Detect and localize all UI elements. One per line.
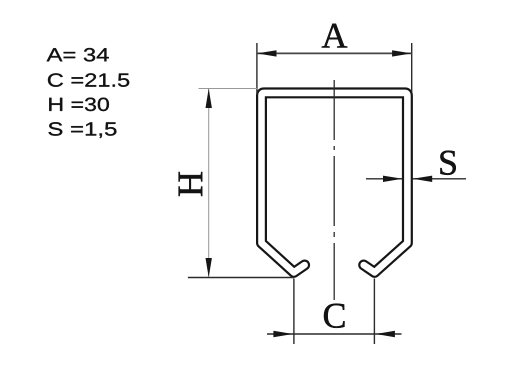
dimension A: right arrowhead: [392, 50, 412, 56]
dimension C: label letter C: [324, 304, 345, 328]
center line (vertical dash-dot axis): [333, 80, 335, 300]
dimension H: bottom extension line: [188, 277, 294, 279]
dimension H: up arrowhead: [206, 89, 212, 109]
dimension C: right extension line: [373, 279, 375, 345]
legend text line 4: S =1,5: [48, 122, 116, 138]
legend text line 1: A= 34: [47, 48, 109, 61]
dimension C: left extension line: [293, 279, 295, 345]
C-profile outline (tube: black outer stroke): [262, 93, 408, 273]
dimension S: left arrowhead (points right at wall): [383, 176, 403, 182]
dimension C: dimension line: [267, 333, 402, 335]
dimension S: right leader line: [413, 178, 467, 180]
dimension A: left arrowhead: [257, 50, 277, 56]
dimension C: right arrowhead (points left): [375, 331, 395, 337]
dimension H: dimension line: [208, 89, 210, 277]
dimension A: dimension line: [257, 52, 412, 54]
dimension A: left extension line: [256, 43, 258, 95]
dimension H: label letter H (rotated): [179, 172, 203, 196]
dimension S: label letter S: [440, 151, 455, 175]
dimension A: label letter A: [322, 24, 347, 48]
dimension S: right arrowhead (points left at wall): [413, 176, 433, 182]
legend text line 2: C =21.5: [48, 73, 129, 86]
legend text line 3: H =30: [49, 98, 109, 111]
C-profile outline (tube: white inner stroke): [262, 93, 408, 273]
dimension H: down arrowhead: [206, 258, 212, 278]
dimension H: top extension line: [199, 88, 259, 90]
dimension C: left arrowhead (points right): [273, 331, 293, 337]
dimension A: right extension line: [411, 43, 413, 92]
dimension S: left leader line: [366, 178, 402, 180]
